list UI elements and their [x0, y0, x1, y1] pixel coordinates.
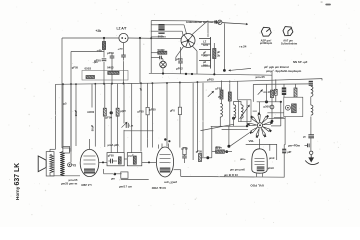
svg-text:µF05: µF05	[182, 146, 189, 150]
resistor R5 0.05	[108, 71, 119, 74]
electrolytic C5 upper	[158, 24, 164, 30]
terminal circle left x272	[270, 105, 274, 109]
power box left edge	[150, 21, 152, 74]
electrolytic C9	[282, 87, 286, 95]
svg-text:µF05: µF05	[91, 125, 95, 132]
bottom wire y179.2	[121, 178, 149, 180]
svg-text:LZ A/T: LZ A/T	[117, 27, 127, 31]
svg-text:µ»: µ»	[303, 135, 307, 139]
wire tube row link y162.4	[99, 161, 107, 163]
diagonal wire to tuning box	[201, 124, 235, 130]
wire socket right spoke	[271, 125, 281, 127]
wire L1 down	[219, 117, 221, 126]
wire h y117.7	[274, 117, 284, 119]
svg-text:µF05: µF05	[72, 65, 79, 69]
svg-text:+7T: +7T	[118, 47, 123, 51]
svg-text:µF0: µF0	[170, 109, 175, 113]
box B with res	[127, 153, 142, 166]
wire diamond to x211.8	[209, 157, 212, 159]
wire R8 down	[117, 116, 119, 152]
wire v x228.9 down	[228, 126, 230, 146]
wire v x237.7 feed	[237, 81, 239, 100]
svg-text:µlm0: µlm0	[268, 166, 275, 170]
node bus A x215	[213, 73, 215, 75]
svg-text:+a 24: +a 24	[239, 44, 247, 48]
wire x112 vertical	[111, 53, 113, 56]
tube V2 grid lines	[160, 154, 171, 156]
tube V1 cathode hatch	[84, 169, 95, 174]
wire x140 vertical	[139, 38, 141, 83]
wire heater to arrow	[222, 23, 248, 25]
wire h y130.8	[124, 130, 153, 132]
blob R13 cathode	[282, 149, 286, 154]
electrolytic C6 lower	[158, 30, 164, 34]
svg-text:µlP: µlP	[287, 150, 291, 154]
jack circle	[68, 163, 72, 167]
wire v x76	[75, 84, 77, 146]
wire R9	[221, 81, 223, 91]
trimmer arrow near socket	[258, 90, 263, 95]
res in box B	[133, 156, 136, 164]
wire jack stub	[72, 164, 76, 166]
tube V2 cathode hatch	[160, 168, 171, 173]
tube V3 grid	[255, 158, 265, 160]
svg-text:0503: 0503	[85, 66, 92, 70]
tube V3 cathode	[257, 166, 265, 171]
wire socket feed y129.6	[222, 128, 248, 130]
resistor R9 hatched	[220, 90, 223, 99]
wire v x141	[140, 83, 142, 151]
wire R8 up	[117, 84, 119, 109]
svg-text:µF05: µF05	[108, 154, 115, 158]
wire under box A y173.8	[104, 173, 122, 175]
wire v x55.5 to speaker	[55, 84, 57, 149]
node bus A x163	[162, 72, 164, 74]
svg-text:m500: m500	[87, 110, 95, 114]
wire R11	[275, 79, 277, 89]
wire v x224.4 from terminal	[223, 23, 225, 70]
stray mark top right	[325, 4, 331, 6]
wire v x203	[202, 83, 204, 157]
bottom bus	[181, 175, 285, 178]
capacitor C8 0.05uF	[178, 60, 183, 62]
svg-text:µm+05: µm+05	[256, 75, 266, 79]
resistor R11	[274, 89, 277, 95]
coil L6 horizontal	[216, 150, 225, 153]
wire h y84.2 right	[253, 83, 310, 86]
node diamond 266.5,102	[265, 100, 268, 103]
knob K1	[261, 27, 271, 36]
wire v x95.3	[94, 84, 96, 147]
capacitor box comp1	[146, 107, 149, 114]
wire comb top to heater	[207, 21, 209, 37]
wire v x193	[192, 83, 194, 160]
svg-text:3b: 3b	[217, 54, 221, 58]
trimmer capacitor	[125, 123, 127, 128]
capacitor C13	[183, 148, 186, 155]
tube LZ A/T top-view circle	[119, 33, 128, 42]
wire y38 right of tube LZ	[128, 37, 181, 40]
svg-text:µ.µF: µ.µF	[128, 153, 134, 157]
heater line under label	[186, 21, 215, 22]
trimmer arrow left	[208, 91, 214, 97]
svg-text:µmWmµm: µmWmµm	[260, 41, 273, 45]
wire h y111.1 socket left	[253, 110, 257, 112]
wire v x180.7 up	[180, 170, 182, 177]
node 140,38	[139, 37, 141, 39]
wire v x211.8 mid	[211, 126, 213, 157]
svg-text:µF00: µF00	[106, 116, 113, 120]
resistor R2 500R	[158, 51, 167, 54]
wire socket top to node	[259, 102, 261, 113]
resistor R15 open	[294, 88, 297, 97]
wire v x197.4	[196, 83, 198, 152]
resistor R3 3b	[213, 49, 216, 59]
wire R3 up	[213, 43, 215, 49]
resistor R1 +2b dropper	[102, 42, 105, 50]
coil L1	[220, 104, 222, 118]
svg-text:µF05: µF05	[150, 108, 157, 112]
node diamond x111	[110, 111, 113, 114]
svg-text:500k: 500k	[158, 34, 165, 38]
rectifier tube VY circle	[181, 34, 195, 48]
blob C11 on x311	[308, 134, 314, 138]
capacitor C2 50uF	[110, 55, 115, 57]
node box edge y38	[150, 37, 152, 39]
earth arrow	[310, 155, 312, 159]
wire R7 up/down	[104, 84, 106, 109]
dial lamp La	[160, 61, 167, 68]
bus B junction dots	[62, 83, 64, 85]
node above V2 b	[168, 140, 170, 142]
tube socket VCL octal view	[257, 123, 262, 128]
resistor R7	[103, 108, 106, 116]
node under L2	[232, 117, 235, 120]
link box A-B	[124, 158, 127, 160]
svg-text:µmd: µmd	[269, 156, 275, 160]
switch tooth 6	[201, 65, 211, 67]
IF inner coil core rect	[292, 104, 297, 113]
svg-text:µ|2Y: µ|2Y	[120, 109, 126, 113]
wire C8 vertical	[180, 47, 182, 61]
node diamond right of R14	[206, 156, 209, 159]
wire v x311.5 down	[310, 117, 312, 152]
switch comb spine	[210, 37, 212, 69]
svg-text:µm: µm	[111, 178, 116, 181]
coil L4	[311, 86, 313, 96]
node diamond 226.7 151.6	[225, 150, 228, 153]
comp2 white rect	[178, 107, 181, 114]
wire V3 legs	[256, 173, 258, 177]
wire left outer corner horizontal y38	[62, 37, 119, 39]
svg-text:VEL: VEL	[249, 139, 255, 143]
capacitor C4 on heater line	[214, 20, 216, 23]
wire v x131.7	[131, 84, 133, 153]
node diamond x228.9 y146.3	[227, 145, 230, 148]
svg-text:C/1E VOR: C/1E VOR	[151, 186, 166, 190]
IF shield box	[284, 97, 303, 116]
svg-text:LZ 2B0: LZ 2B0	[81, 183, 91, 187]
svg-text:µF02: µF02	[176, 66, 183, 70]
tube V1 envelope	[80, 149, 99, 176]
node x280.8 y101.8	[280, 101, 282, 103]
wire R2 to box edge	[151, 52, 158, 54]
speaker cone	[38, 156, 46, 172]
wire v x63	[62, 84, 64, 146]
wire V2 to x180.7	[174, 169, 181, 171]
wire socket NE to box	[267, 112, 283, 114]
wire v x92	[91, 84, 93, 108]
tube V1 top lead	[89, 139, 91, 149]
wire comp1	[147, 83, 149, 107]
coil L2	[234, 105, 236, 119]
res R14	[199, 154, 202, 162]
svg-text:µF05: µF05	[196, 150, 203, 154]
wire rectifier down-right	[193, 46, 198, 51]
bus B end tick	[321, 78, 323, 80]
capacitor C3 below tube LZ	[121, 54, 126, 56]
svg-text:µF50: µF50	[107, 51, 114, 55]
wire box above V3	[246, 144, 277, 160]
wire x197 to bus A	[196, 51, 198, 74]
wire R10	[229, 80, 231, 92]
node x247 y126	[246, 125, 248, 127]
svg-text:µ5: µ5	[64, 102, 68, 106]
tuning arrow	[240, 105, 250, 119]
wire C9 stubs	[283, 84, 285, 87]
svg-text:µ500: µ500	[264, 105, 271, 109]
svg-text:µF05: µF05	[176, 57, 183, 61]
small box left of V1	[63, 146, 70, 153]
cap in box A	[110, 159, 112, 164]
node bus A x192	[191, 73, 193, 75]
wire left outer corner vertical	[61, 38, 63, 148]
svg-text:P00: P00	[203, 63, 208, 67]
wire left inner horizontal y51.5	[71, 51, 104, 53]
field coil dense	[60, 152, 64, 176]
annotation arrow to bus junction	[229, 68, 252, 70]
wire lamp top	[162, 59, 164, 61]
wire tube LZ to bus	[123, 43, 125, 55]
bus A y73-75 tilted	[149, 73, 272, 75]
wire comp2	[179, 83, 181, 107]
box A with cap	[107, 153, 124, 166]
wire v x152.4	[151, 83, 153, 147]
wire socket lower-left spoke diagonal	[231, 133, 250, 146]
node 114.8,173.8	[114, 173, 117, 176]
main bus B long	[56, 79, 323, 85]
wire v x280.8	[280, 102, 282, 126]
svg-text:+2b: +2b	[96, 29, 102, 33]
speaker magnet rect	[46, 152, 54, 176]
svg-text:µF05: µF05	[207, 77, 214, 81]
tube V3 top lead	[259, 139, 261, 149]
svg-text:µm3? µm: µm3? µm	[164, 181, 177, 185]
wire socket SE to v285	[269, 117, 286, 119]
tube V2 envelope	[156, 147, 173, 177]
wire v x272 right col	[271, 71, 273, 121]
svg-text:µmA µ05: µmA µ05	[108, 143, 120, 147]
wire x285 down from box	[284, 117, 286, 145]
svg-text:Schnellmhtm: Schnellmhtm	[281, 42, 298, 46]
knob K2	[283, 27, 293, 36]
wire h y101.8	[257, 101, 281, 103]
wire R15 stubs	[295, 84, 297, 88]
tube V1 grid lines	[84, 155, 96, 157]
terminal circle ground	[310, 151, 313, 154]
switch tooth 1	[199, 38, 211, 40]
resistor R12	[271, 90, 274, 98]
power box top edge / heater line left segment	[151, 20, 186, 22]
svg-text:µmµr¹ -SµpSuSLmuµbuµm: µmµr¹ -SµpSuSLmuµbuµm	[266, 69, 302, 73]
svg-text:0403: 0403	[107, 66, 114, 70]
wire v x124	[123, 84, 125, 124]
svg-text:µm/1? cm: µm/1? cm	[119, 184, 133, 188]
speaker zigzag	[50, 154, 54, 173]
svg-text:500: 500	[203, 54, 208, 58]
res in box A	[118, 157, 121, 164]
coil L3	[241, 105, 243, 119]
wire v x253.3	[252, 84, 254, 101]
svg-text:µm µm µm0: µm µm µm0	[230, 167, 245, 171]
wire socket feed y126	[211, 125, 247, 127]
wire R3 down	[213, 59, 215, 75]
svg-text:~µm: ~µm	[93, 61, 99, 64]
switch tooth 2	[201, 43, 211, 45]
svg-text:m+10: m+10	[264, 90, 271, 94]
wire L4-L5	[310, 97, 312, 105]
wire R14 to diamond	[202, 157, 207, 159]
capacitor C1 50uF	[102, 58, 107, 60]
node above V2	[164, 138, 166, 140]
wire boxB to V2	[142, 161, 157, 163]
stray mark top right 2	[321, 2, 323, 3]
node diamond x224.4 bus A	[223, 69, 226, 72]
coil L5	[311, 105, 313, 115]
svg-text:µF05: µF05	[74, 110, 78, 117]
dashed box around R4 R5	[82, 71, 128, 81]
svg-text:G01: G01	[203, 43, 209, 47]
tube V2 pin wires	[158, 145, 160, 149]
svg-text:+4b: +4b	[97, 48, 102, 52]
svg-text:µm25 µm+m: µm25 µm+m	[61, 182, 78, 186]
speaker bottom wire	[50, 175, 80, 177]
wire rectifier top to heater line	[191, 21, 207, 35]
wire v x71 lower	[70, 84, 72, 151]
capacitor C7 under R2	[159, 56, 161, 60]
bracket L2-L3 top	[234, 102, 241, 105]
wire socket left spoke to feed	[247, 125, 249, 127]
svg-text:500R: 500R	[158, 48, 166, 52]
wire cap left stubs	[151, 24, 158, 26]
wire rectifier down-left	[176, 47, 184, 58]
switch tooth 4	[201, 54, 211, 56]
electrolytic C10 small	[309, 81, 313, 86]
wire v x269.8	[269, 144, 271, 150]
node at 104,38	[103, 37, 105, 39]
wire cap C6 to rectifier	[165, 30, 183, 32]
svg-text:µm El R 03: µm El R 03	[224, 173, 238, 177]
node diamond x272 y121	[271, 120, 274, 123]
switch tooth 5	[199, 60, 211, 62]
wire v x247	[246, 100, 248, 126]
tube V3 envelope	[252, 149, 267, 173]
earth curve	[305, 161, 319, 165]
resistor R10 hatched	[228, 92, 231, 101]
svg-text:µF05: µF05	[138, 110, 145, 114]
small box below B	[121, 172, 128, 178]
wire left inner corner vertical x71	[70, 52, 72, 163]
wire v x266.5 up	[266, 84, 268, 102]
wire L6 to node	[224, 151, 226, 153]
svg-text:+2: +2	[73, 163, 77, 167]
wire v x167	[166, 83, 168, 146]
wire lamp to bus	[162, 68, 164, 74]
resistor R8	[116, 108, 119, 116]
resistor R4 0.05	[86, 76, 95, 79]
tuning gang box	[238, 100, 251, 122]
wire cap C5 to rectifier	[165, 24, 184, 26]
wire x104 vertical	[103, 38, 105, 58]
svg-text:µF0?: µF0?	[216, 146, 223, 150]
terminal circle heater	[218, 20, 222, 24]
node bus A x186	[185, 73, 187, 75]
svg-text:µF: µF	[217, 50, 221, 54]
svg-text:Horny 637 LK: Horny 637 LK	[14, 163, 21, 200]
wire v x285 to V3 area	[283, 144, 286, 146]
capacitor C12	[307, 144, 309, 148]
wire v x284 to bus	[283, 145, 285, 178]
svg-text:NN SP +µZ: NN SP +µZ	[293, 60, 308, 64]
svg-text:UVL POO: UVL POO	[250, 184, 264, 188]
svg-text:µm=PDm: µm=PDm	[288, 144, 301, 148]
IF inner circle	[286, 105, 291, 110]
switch tooth 3	[199, 49, 211, 51]
svg-text:µm»: µm»	[240, 157, 246, 161]
